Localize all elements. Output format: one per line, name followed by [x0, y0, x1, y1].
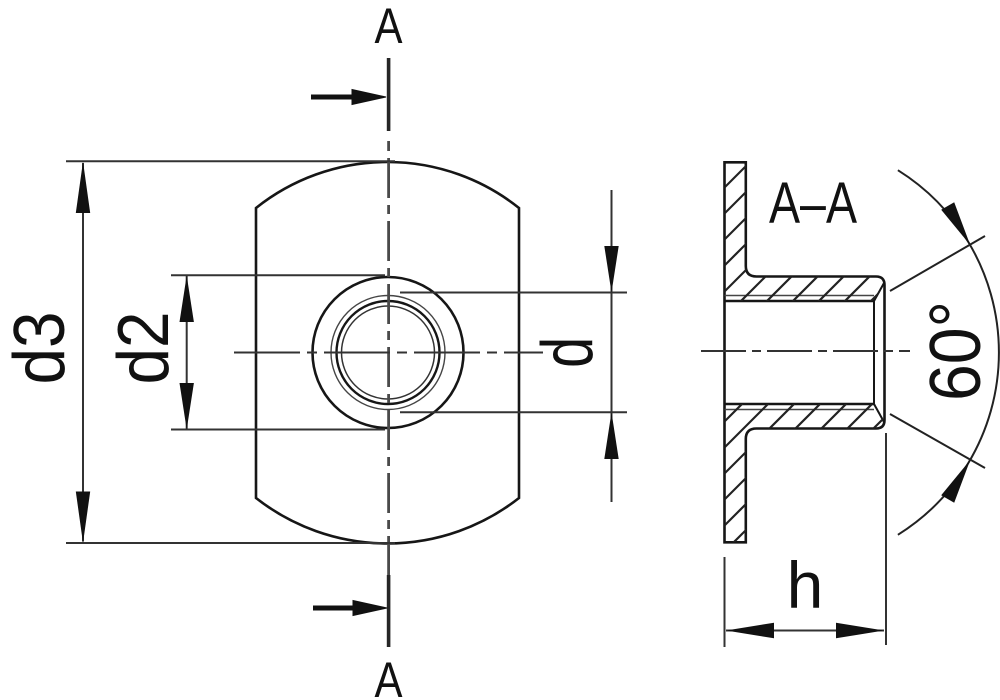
60 deg arrow top: [941, 202, 970, 245]
60 deg leg bottom: [890, 414, 985, 468]
chamfer bottom right: [874, 404, 884, 422]
d extension line top: [400, 292, 627, 294]
svg-text:A–A: A–A: [769, 171, 857, 236]
d2 dimension line: [186, 276, 188, 429]
chamfer circle: [342, 306, 435, 399]
thread end line: [873, 301, 875, 404]
60 deg arrow bottom: [941, 460, 970, 503]
d2 arrow down: [180, 383, 194, 430]
bore minor thick circle: [337, 301, 440, 404]
d arrow top (pointing down): [604, 246, 618, 293]
d dimension line: [611, 190, 613, 502]
front view outline (obround plate): [256, 162, 519, 543]
bore minor line top: [725, 300, 875, 302]
vertical centerline / cutting plane A-A: [387, 158, 390, 575]
svg-text:A: A: [375, 0, 404, 54]
d3 dimension line: [82, 163, 84, 542]
chamfer top right: [874, 283, 884, 301]
d extension line bottom: [400, 411, 627, 413]
h arrow left: [726, 623, 774, 639]
d3 arrow down: [76, 492, 90, 544]
bore minor line bottom: [725, 403, 875, 405]
d2 extension line bottom: [171, 429, 385, 431]
horizontal centerline front view: [234, 352, 543, 354]
svg-text:60°: 60°: [916, 301, 996, 401]
h arrow right: [836, 623, 884, 639]
section arrow top: [311, 90, 386, 105]
cutting plane thick end top: [387, 58, 391, 131]
d arrow bottom (pointing up): [604, 412, 618, 459]
thread major thin circle d: [331, 296, 445, 410]
60 deg leg top: [890, 236, 985, 291]
svg-text:d3: d3: [0, 312, 80, 385]
cutting plane short dash top: [387, 141, 390, 151]
svg-text:d2: d2: [104, 312, 184, 385]
60 deg arc: [898, 170, 999, 535]
section centerline: [701, 350, 910, 352]
h extension line left: [724, 557, 726, 647]
d2 arrow up: [180, 276, 194, 323]
section arrow bottom: [313, 601, 387, 616]
d2 extension line top: [171, 274, 385, 276]
hatching lower zone: [326, 140, 1000, 560]
thread major thin line top: [725, 295, 875, 297]
h extension line right: [885, 433, 887, 645]
hatching upper zone: [326, 140, 1000, 560]
section outline: [725, 162, 885, 542]
d3 arrow up: [76, 162, 90, 214]
thread major thin line bottom: [725, 409, 875, 411]
d3 extension line top: [66, 160, 395, 162]
svg-text:d: d: [528, 337, 608, 368]
h dimension line: [726, 630, 884, 632]
cutting plane thick end bottom: [387, 575, 391, 647]
svg-text:A: A: [375, 652, 404, 700]
outer circle d2 (barrel outer diameter): [313, 277, 464, 428]
svg-text:h: h: [787, 548, 824, 622]
d3 extension line bottom: [66, 542, 395, 544]
